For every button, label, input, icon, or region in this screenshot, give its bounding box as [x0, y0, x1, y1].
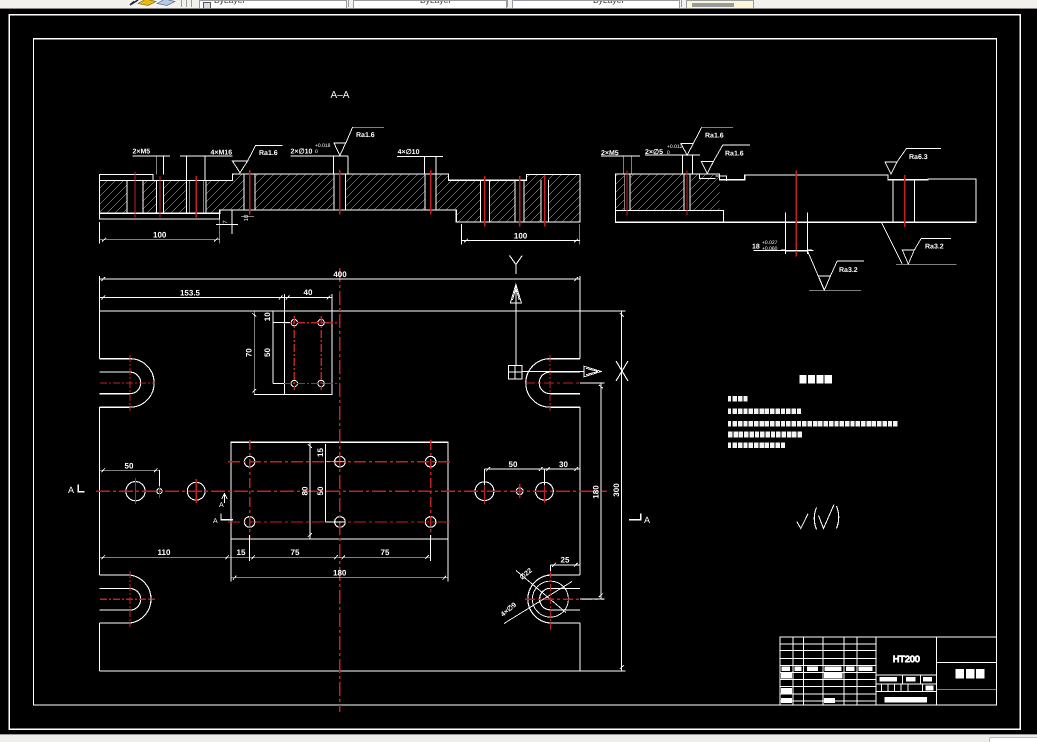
surface finish Ra3.2 below tab with leader [808, 251, 864, 290]
dim 180 vertical right [580, 383, 605, 599]
svg-text:10: 10 [263, 312, 272, 321]
svg-text:70: 70 [245, 348, 254, 357]
svg-text:A: A [219, 502, 224, 509]
svg-text:15: 15 [316, 448, 325, 457]
hole gap 249.6 [244, 174, 255, 211]
svg-text:400: 400 [333, 270, 347, 279]
svg-text:A: A [644, 515, 650, 525]
hole gap 484.9 [481, 180, 490, 223]
left grid horizontals [780, 644, 876, 701]
leader dia22 [516, 566, 566, 612]
note line 2 [728, 409, 801, 415]
red centerlines of section holes [135, 170, 545, 227]
mark A left [68, 485, 85, 496]
label 4x dia10 [397, 148, 443, 174]
notch centerlines TR [525, 382, 604, 384]
note line 1 [728, 396, 748, 402]
svg-text:80: 80 [300, 486, 309, 495]
toolbar strip (application UI remnant) [0, 0, 1037, 9]
dim 300 vertical right [580, 311, 626, 671]
parenthesis right [837, 506, 839, 529]
pad hole centerlines [283, 322, 337, 324]
surface finish Ra3.2 right with leader [881, 222, 956, 264]
svg-text:0: 0 [315, 149, 318, 155]
section cut marks A [68, 485, 650, 526]
dim 25 [550, 556, 579, 571]
svg-text:HT200: HT200 [893, 654, 920, 664]
UCS icon [508, 256, 628, 382]
hole gap 544.6 [541, 180, 549, 223]
label 2xM5 (right view) [601, 150, 640, 174]
status bar strip [0, 734, 1037, 742]
svg-text:+0.012: +0.012 [667, 144, 683, 150]
right part horizontals [937, 663, 997, 690]
dim 70 [245, 311, 285, 395]
bottom key tab 18H7 [786, 213, 808, 252]
pad holes [291, 319, 324, 386]
dimensions of plan view [100, 270, 626, 671]
center rectangle [231, 442, 448, 539]
small verticals through row circles [135, 478, 137, 504]
label 4xM16 [180, 150, 233, 181]
U-slot top-right [526, 359, 580, 408]
svg-text:50: 50 [316, 486, 325, 495]
mark A right [629, 514, 650, 526]
hole gap 687 [684, 173, 690, 211]
mark A mid arrow up [219, 494, 227, 510]
left hatched block [615, 174, 719, 211]
svg-text:180: 180 [333, 569, 347, 578]
center rect row centerlines [228, 461, 451, 463]
hole gap 159 [157, 180, 164, 214]
hole gap 339.7 [334, 174, 345, 211]
dimension 18 +0.027/+0.060 [752, 240, 813, 254]
small step detail [699, 174, 726, 181]
svg-text:50: 50 [125, 461, 134, 470]
svg-text:75: 75 [381, 548, 390, 557]
dim 50 left [100, 461, 160, 486]
svg-text:100: 100 [514, 231, 528, 240]
svg-text:100: 100 [153, 231, 167, 240]
svg-text:75: 75 [291, 548, 300, 557]
parenthesis left [814, 508, 816, 530]
note line 4 [728, 432, 802, 438]
center rect column centerlines [249, 440, 251, 539]
svg-text:Ra1.6: Ra1.6 [259, 150, 278, 157]
svg-text:110: 110 [158, 548, 171, 557]
svg-text:+0.027: +0.027 [762, 240, 778, 246]
UCS origin box [508, 365, 522, 379]
hole gap 627 [624, 173, 630, 211]
svg-text:10: 10 [243, 214, 250, 221]
section body outline [100, 174, 580, 222]
svg-text:25: 25 [561, 556, 570, 565]
svg-text:30: 30 [559, 460, 568, 469]
svg-text:+0.060: +0.060 [762, 246, 778, 252]
left grid verticals [793, 637, 937, 705]
svg-text:A: A [213, 518, 218, 525]
part name jia ju ti [956, 669, 985, 678]
surface finish summary marks [797, 505, 839, 530]
svg-text:Ra3.2: Ra3.2 [839, 267, 858, 274]
svg-text:2×M5: 2×M5 [133, 149, 151, 156]
surface finish Ra6.3 top right [885, 149, 941, 175]
surface finish Ra1.6 on dim line [681, 127, 733, 155]
main vertical centerline [339, 268, 341, 712]
svg-text:A: A [68, 485, 74, 495]
note line 3 [728, 421, 898, 427]
dim 10 and 50 vertical at pad [263, 311, 290, 384]
dimension 100 right under section [462, 224, 580, 245]
dim 15 and 50 inside rect [316, 444, 345, 522]
svg-text:7: 7 [222, 220, 229, 224]
svg-text:15: 15 [237, 548, 246, 557]
spot-face circle at bottom-right slot [532, 581, 568, 617]
label 2xM5 [133, 149, 171, 175]
dim 180 bottom [231, 539, 448, 582]
surface finish Ra1.6 on step [233, 145, 283, 173]
note line 5 [728, 442, 785, 448]
dim 75 b [340, 535, 431, 561]
dim 50 right [485, 460, 545, 485]
hole gap 135 [127, 180, 143, 214]
body outline [615, 174, 976, 222]
svg-text:50: 50 [509, 460, 518, 469]
U-slot bottom-left [100, 575, 151, 623]
header tiny text row [782, 667, 873, 671]
dim 75 a [250, 548, 340, 559]
hole gap 519.6 [515, 180, 524, 223]
dim 15 [231, 535, 250, 561]
raised strip left [100, 174, 153, 180]
svg-text:180: 180 [591, 485, 600, 499]
dim 80 inside rect [300, 442, 312, 539]
bottom white bar [885, 697, 927, 703]
svg-text:Ra3.2: Ra3.2 [925, 243, 944, 250]
X axis line and arrow [522, 371, 584, 373]
dim 30 right [544, 460, 579, 471]
surface finish Ra1.6 above center hole [334, 127, 384, 155]
raised strip right [526, 175, 580, 181]
right circles on centerline [475, 482, 553, 501]
plate outline with notch gaps [100, 311, 580, 671]
stage/weight/scale labels [880, 677, 933, 681]
svg-text:50: 50 [263, 348, 272, 357]
block bottom and foot [615, 211, 723, 223]
svg-text:Ra6.3: Ra6.3 [909, 154, 928, 161]
svg-text:300: 300 [612, 483, 621, 497]
Y axis label [510, 256, 523, 274]
small row labels [781, 688, 835, 703]
big check [819, 505, 835, 529]
notch centerlines BL [100, 598, 155, 600]
dim 40 [284, 288, 332, 311]
svg-text:Ra1.6: Ra1.6 [705, 133, 724, 140]
red centerlines right section [627, 171, 905, 257]
svg-text:A–A: A–A [331, 90, 350, 101]
svg-text:4×∅9: 4×∅9 [499, 601, 518, 619]
svg-text:40: 40 [304, 288, 313, 297]
main horizontal centerline [96, 490, 607, 492]
dim 110 [100, 548, 231, 559]
mark A mid L [213, 514, 233, 526]
right hole walls [893, 180, 914, 223]
svg-text:2×∅10: 2×∅10 [291, 147, 313, 155]
dim 153.5 [100, 289, 285, 311]
hole gap 430.6 [425, 174, 436, 211]
Y axis line and arrow [515, 284, 517, 365]
leader 4x dia9 [499, 582, 572, 624]
X axis label [616, 361, 628, 381]
svg-text:Ra1.6: Ra1.6 [356, 132, 375, 139]
small step dims 7 and 10 [216, 210, 254, 234]
step at right end [927, 178, 929, 181]
notch centerlines TL [100, 382, 155, 384]
red centerlines of plan view [96, 268, 607, 712]
svg-text:4×∅10: 4×∅10 [398, 148, 420, 156]
top pad [284, 311, 332, 395]
dim 400 [100, 270, 580, 311]
hole gap 196 M16 [186, 180, 206, 214]
svg-text:18: 18 [752, 244, 760, 251]
U-slot top-left [100, 359, 155, 408]
title block outer box [780, 637, 996, 705]
svg-text:153.5: 153.5 [180, 289, 201, 298]
section body hatched area [100, 174, 580, 222]
label 2x dia5 +0.012 [645, 144, 700, 174]
surface finish Ra1.6 on top face [701, 145, 750, 174]
left foot strip [100, 210, 220, 219]
highlighted cells row [781, 673, 842, 678]
left circles on centerline [126, 482, 205, 501]
notch centerlines BR [525, 598, 604, 600]
title ji shu yao qiu [800, 375, 832, 384]
center rect holes [244, 456, 436, 527]
label 2x dia10 +0.018 [291, 143, 349, 174]
dimension 100 left under section [100, 222, 220, 244]
small check [797, 514, 808, 529]
svg-text:Ra1.6: Ra1.6 [725, 150, 744, 157]
small cells row [881, 684, 922, 692]
U-slot bottom-right [528, 575, 580, 623]
